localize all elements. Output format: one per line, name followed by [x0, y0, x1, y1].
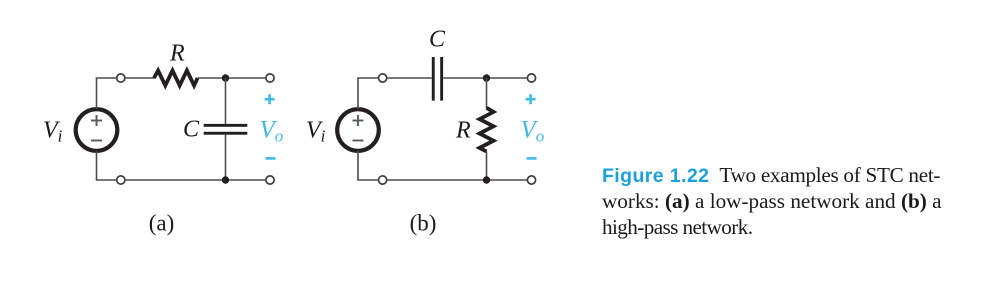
- terminal top-left (b): [379, 74, 387, 82]
- figure caption: [602, 163, 962, 240]
- svg-text:R: R: [169, 41, 185, 67]
- svg-text:Vi: Vi: [43, 118, 63, 146]
- node bottom (b): [483, 176, 490, 183]
- terminal bottom-right (a): [266, 176, 274, 184]
- node bottom (a): [222, 176, 229, 183]
- svg-text:Vo: Vo: [260, 117, 284, 146]
- wire bottom-left (b): [357, 179, 378, 181]
- minus sign output (b): [527, 157, 537, 160]
- wire resistor to right terminal (a): [198, 77, 266, 79]
- wire resistor to bottom (b): [486, 151, 488, 180]
- terminal top-right (a): [266, 74, 274, 82]
- voltage source Vi (b): [337, 109, 379, 151]
- wire source top (b): [357, 78, 359, 109]
- wire bottom (b): [387, 179, 528, 181]
- wire bottom (a): [125, 179, 266, 181]
- wire node to resistor (b): [486, 78, 488, 108]
- terminal bottom-left (b): [379, 176, 387, 184]
- svg-text:Vo: Vo: [521, 117, 545, 146]
- svg-text:C: C: [429, 27, 446, 53]
- terminal top-left (a): [117, 74, 125, 82]
- terminal bottom-left (a): [117, 176, 125, 184]
- wire bottom-left (a): [96, 179, 117, 181]
- wire source bottom (a): [96, 151, 98, 180]
- svg-text:(a): (a): [149, 211, 175, 236]
- svg-text:Vi: Vi: [306, 118, 326, 146]
- resistor R (b): [480, 108, 494, 152]
- wire capacitor to bottom (a): [225, 135, 227, 180]
- svg-text:(b): (b): [410, 211, 437, 236]
- node top (b): [483, 74, 490, 81]
- terminal top-right (b): [527, 74, 535, 82]
- wire top-left (a): [96, 77, 117, 79]
- wire top-left (b): [357, 77, 378, 79]
- plus sign output (b): [526, 94, 536, 104]
- svg-text:R: R: [455, 118, 471, 144]
- wire source top (a): [96, 78, 98, 109]
- wire terminal to capacitor (b): [387, 77, 432, 79]
- svg-text:C: C: [183, 117, 200, 143]
- wire source bottom (b): [357, 151, 359, 180]
- plus sign output (a): [265, 94, 275, 104]
- capacitor C (a): [204, 124, 248, 135]
- wire node to capacitor (a): [225, 78, 227, 124]
- voltage source Vi (a): [76, 109, 118, 151]
- node top (a): [222, 74, 229, 81]
- resistor R (a): [154, 71, 198, 86]
- capacitor C (b): [432, 57, 443, 101]
- wire terminal to resistor (a): [125, 77, 155, 79]
- terminal bottom-right (b): [527, 176, 535, 184]
- minus sign output (a): [266, 157, 276, 160]
- wire capacitor to node (b): [443, 77, 527, 79]
